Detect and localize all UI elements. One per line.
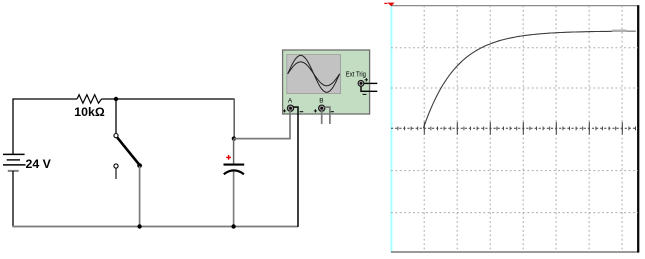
wire channel B minus stub <box>325 107 330 124</box>
switch S1 lever <box>117 138 139 165</box>
grid horizontal dashed lines <box>391 48 638 213</box>
resistor R1 <box>77 95 102 104</box>
wire bottom gray <box>12 226 298 228</box>
wire Ext Trig plus stub <box>364 82 377 84</box>
wire switch drop <box>115 99 117 133</box>
channel B terminal <box>319 105 325 111</box>
wire Ext Trig minus stub <box>361 86 377 91</box>
trace cursor overlap segment <box>612 30 626 32</box>
switch S1 open terminal stub <box>115 168 117 179</box>
capacitor C1 top lead <box>233 139 235 164</box>
wire channel A minus over panel <box>293 107 298 115</box>
node junction switch-bottom <box>137 224 141 228</box>
wire cap node to scope A+ gray <box>234 111 290 139</box>
wire channel B plus stub <box>321 111 323 124</box>
wire scope A- black <box>293 107 298 227</box>
switch S1 top terminal <box>114 134 118 138</box>
scope display bottom border <box>391 251 639 253</box>
channel A minus mark <box>300 111 304 113</box>
Ext Trig plus mark <box>365 78 368 81</box>
svg-text:10kΩ: 10kΩ <box>74 105 105 119</box>
scope display left edge cyan <box>390 6 392 252</box>
wire left vertical battery top <box>12 98 14 154</box>
channel B plus mark <box>314 109 317 112</box>
wire right vertical to cap node <box>233 98 235 138</box>
Ext Trig minus mark <box>363 93 367 95</box>
axis tick marks <box>398 127 636 131</box>
switch S1 open terminal <box>114 164 118 168</box>
capacitor C1 polarity plus <box>226 155 231 160</box>
svg-text:A: A <box>288 98 293 105</box>
battery V1 plate short <box>7 159 20 161</box>
svg-text:B: B <box>319 98 323 105</box>
grid vertical dashed lines <box>424 6 622 252</box>
channel B minus mark <box>330 111 334 113</box>
trace tail light segment <box>627 30 636 32</box>
channel A terminal <box>287 105 293 111</box>
trace exponential charging curve <box>423 31 635 128</box>
switch S1 pivot dot <box>137 163 142 168</box>
capacitor C1 top plate <box>224 164 245 166</box>
wire left vertical battery bottom <box>12 171 14 227</box>
axis division crosses <box>424 122 622 135</box>
wire top from battery to resistor <box>13 98 77 100</box>
wire channel A plus over panel <box>289 111 291 115</box>
oscilloscope XSC1 screen <box>287 55 341 94</box>
battery V1 plate long top <box>3 153 25 155</box>
channel A plus mark <box>283 109 286 112</box>
capacitor C1 bottom lead <box>233 172 235 227</box>
axis horizontal dashed <box>391 127 638 129</box>
capacitor C1 curved plate <box>224 170 244 174</box>
svg-text:24 V: 24 V <box>26 157 52 171</box>
oscilloscope XSC1 panel <box>283 50 370 114</box>
trigger marker red <box>387 3 394 7</box>
wire resistor to corner <box>102 98 235 100</box>
node junction capacitor bottom <box>231 224 235 228</box>
battery V1 plate long bottom <box>3 164 26 166</box>
scope display top border <box>391 5 639 7</box>
node junction capacitor top <box>232 136 236 140</box>
wire switch pole to bottom <box>139 166 141 227</box>
oscilloscope screen sine wave 1 <box>288 55 340 92</box>
Ext Trig terminal <box>358 81 364 87</box>
node junction resistor-switch <box>114 97 118 101</box>
battery V1 plate short gray <box>8 170 19 172</box>
svg-text:Ext Trig: Ext Trig <box>346 72 366 79</box>
scope display right border <box>637 5 639 252</box>
oscilloscope screen sine wave 2 <box>288 62 340 86</box>
